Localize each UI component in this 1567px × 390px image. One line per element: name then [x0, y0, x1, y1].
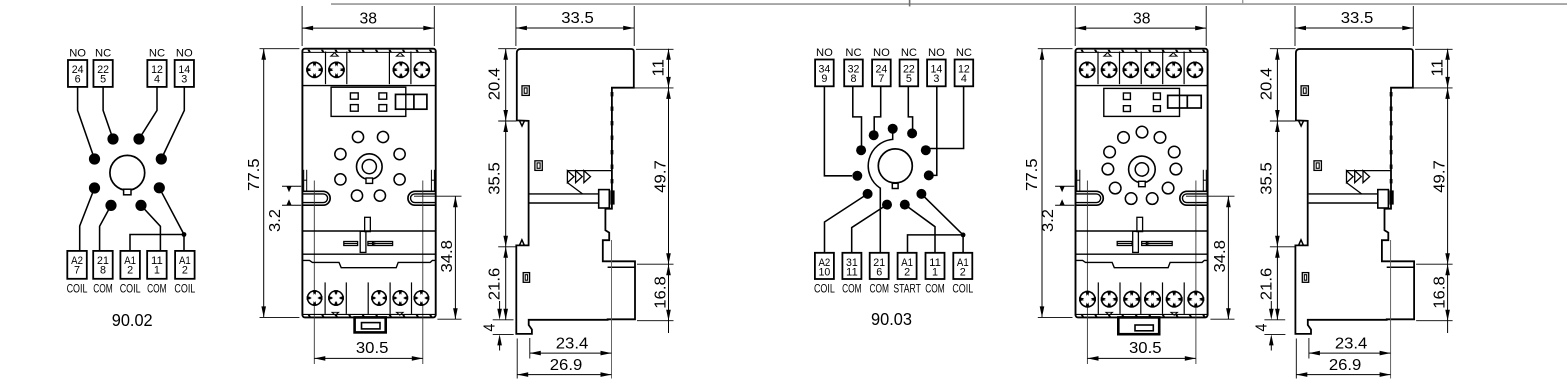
side 90.02 right dim arrows [666, 49, 671, 60]
front 90.03 clip slot [1137, 217, 1143, 231]
front 90.02 marker triangle [395, 52, 405, 57]
svg-text:5: 5 [906, 73, 912, 85]
svg-text:11: 11 [846, 266, 858, 278]
svg-text:3.2: 3.2 [1040, 209, 1057, 232]
side 90.02 clip hook [610, 190, 614, 204]
side 90.03 flag tail [1347, 183, 1362, 194]
svg-text:77.5: 77.5 [246, 158, 263, 191]
front 90.03 contact hole [1118, 132, 1130, 144]
terminal box 22/5 [93, 60, 112, 87]
pin 4 [856, 145, 866, 155]
side 90.02 flag 2 [576, 171, 583, 183]
svg-text:77.5: 77.5 [1024, 158, 1041, 191]
wire 14/3 to pin [161, 87, 184, 159]
side 90.02 flag tail [567, 183, 582, 194]
front 90.03 boss inner hole [1135, 163, 1148, 176]
side 90.02 rail comb [611, 92, 614, 96]
svg-text:COM: COM [93, 282, 113, 296]
svg-text:11: 11 [651, 59, 668, 77]
side 90.03 clamp window lower [1302, 273, 1308, 283]
terminal box 32/8 [844, 60, 863, 87]
pin B [133, 133, 144, 144]
svg-text:11: 11 [1430, 59, 1447, 77]
wire 24/6 to pin [78, 87, 95, 159]
front 90.02 boss inner hole [362, 160, 376, 174]
pin 7 [924, 170, 934, 180]
pin 10 [882, 200, 892, 210]
pin G [105, 200, 116, 211]
wire arc to 21/6 [879, 188, 881, 253]
svg-text:20.4: 20.4 [1259, 68, 1276, 101]
front 90.03 block square [1153, 93, 1160, 100]
socket keyway tab [892, 183, 898, 188]
front 90.02 clip bar left [344, 242, 358, 246]
pin H [135, 200, 146, 211]
front 90.02 screw [306, 62, 323, 79]
svg-text:33.5: 33.5 [561, 10, 594, 27]
terminal box 14/3 [175, 60, 194, 87]
side 90.02 bottom ext lines [516, 339, 518, 379]
svg-text:COM: COM [842, 282, 862, 296]
pin 8 [863, 189, 873, 199]
front 90.03 bottom strip hatch [1081, 315, 1085, 317]
terminal box 34/9 [815, 60, 834, 87]
side 90.03 right ext line [1415, 48, 1453, 50]
front 90.03 dim 30.5 [1088, 357, 1196, 359]
svg-text:16.8: 16.8 [1432, 276, 1449, 309]
front 90.03 clip shelf [1076, 230, 1208, 232]
front 90.02 partition [367, 282, 369, 314]
table rule (grey) [331, 3, 1567, 5]
front 90.03 partition [1140, 282, 1142, 314]
front 90.03 projection lines [1086, 181, 1088, 365]
front 90.02 block square [379, 93, 387, 99]
front 90.03 screw [1144, 291, 1161, 308]
terminal box A1/2 [120, 251, 139, 279]
svg-text:49.7: 49.7 [653, 160, 670, 193]
pin 9 [916, 189, 926, 199]
front 90.02 screw [414, 62, 431, 79]
svg-text:30.5: 30.5 [1129, 340, 1162, 357]
front 90.03 partition [1097, 52, 1099, 85]
front 90.03 contact hole [1170, 163, 1182, 175]
front 90.03 partition [1097, 282, 1099, 314]
svg-text:90.02: 90.02 [112, 310, 153, 330]
front 90.03 marker triangle [1105, 312, 1114, 316]
front 90.02 centre boss [357, 154, 383, 180]
svg-text:35.5: 35.5 [486, 162, 503, 195]
front 90.02 screw [371, 290, 387, 306]
svg-text:20.4: 20.4 [486, 68, 503, 101]
front 90.02 dim 3.2 [282, 185, 301, 187]
svg-text:2: 2 [182, 265, 188, 277]
svg-text:90.03: 90.03 [871, 309, 912, 329]
svg-text:21.6: 21.6 [1259, 268, 1276, 301]
svg-text:35.5: 35.5 [1259, 162, 1276, 195]
terminal box 21/8 [93, 251, 113, 279]
side 90.02 ledge inner line [608, 266, 635, 268]
front 90.03 block square [1153, 106, 1160, 112]
junction [961, 233, 966, 238]
svg-text:2: 2 [960, 266, 966, 278]
svg-text:COM: COM [925, 282, 945, 296]
front 90.03 screw [1144, 62, 1161, 79]
svg-text:4: 4 [961, 73, 967, 85]
front 90.03 lower shelf [1076, 253, 1208, 255]
svg-text:1: 1 [154, 265, 160, 277]
wire pin to 11/1 [141, 205, 160, 251]
svg-text:38: 38 [1133, 10, 1151, 27]
front 90.03 screw [1101, 62, 1118, 79]
front 90.02 screw [414, 290, 430, 306]
front 90.02 hook slot [303, 170, 305, 192]
side 90.02 left ext line [498, 48, 516, 50]
front 90.02 screw [328, 290, 344, 306]
svg-text:COIL: COIL [952, 282, 973, 296]
wire 22/5 to pin [908, 86, 912, 129]
front 90.02 contact hole [377, 131, 388, 142]
side 90.03 dim 23.4 [1309, 352, 1391, 354]
front 90.03 partition [1162, 52, 1164, 85]
front 90.03 mounting tab [1118, 317, 1159, 334]
terminal box A1/2 [898, 253, 917, 279]
wire pin to A2/10 [825, 194, 868, 253]
svg-text:NC: NC [845, 47, 861, 59]
front 90.03 body outline [1076, 49, 1208, 318]
svg-text:30.5: 30.5 [356, 340, 389, 357]
pin 5 [921, 145, 931, 155]
front 90.02 dim 38 [302, 27, 434, 29]
front 90.03 contact hole [1125, 193, 1137, 205]
svg-text:9: 9 [821, 73, 827, 85]
wire 32/8 to pin [853, 86, 862, 146]
side 90.03 body profile [1295, 49, 1414, 334]
side 90.02 clip bar [530, 193, 599, 195]
side 90.02 flag rail line [567, 170, 612, 172]
front 90.02 shelf line [302, 85, 435, 87]
side 90.03 ledge inner line [1387, 266, 1414, 268]
front 90.02 contact hole [335, 149, 346, 160]
terminal box 22/5 [900, 60, 919, 87]
wire 12/4 to pin [930, 86, 964, 148]
side 90.02 dim 23.4 [530, 352, 612, 354]
side 90.03 dim 33.5 [1295, 27, 1413, 29]
svg-text:6: 6 [75, 73, 81, 85]
pin 6 [852, 171, 862, 181]
front 90.02 marking block [331, 87, 406, 116]
side 90.03 right ext line [1393, 87, 1453, 89]
side 90.03 rail comb [1390, 92, 1393, 96]
side 90.03 left ext line [1264, 333, 1285, 335]
svg-text:6: 6 [876, 266, 882, 278]
front 90.02 partition [325, 52, 327, 85]
front 90.03 retaining hook [1076, 191, 1104, 205]
front 90.02 top strip hatch [307, 50, 311, 53]
side 90.03 clamp window middle [1314, 161, 1321, 171]
side 90.02 left ext line [493, 333, 514, 335]
front 90.02 screw [392, 290, 408, 306]
front 90.02 partition [389, 282, 391, 314]
front 90.02 partition [410, 52, 412, 85]
front 90.03 screw [1187, 62, 1204, 79]
terminal box 11/1 [147, 251, 167, 279]
side 90.02 lower notch tooth [519, 240, 524, 246]
svg-text:33.5: 33.5 [1341, 10, 1374, 27]
pin D [156, 153, 167, 164]
svg-text:NO: NO [816, 47, 833, 59]
front 90.02 clip bar right [368, 242, 393, 246]
front 90.02 marker triangle [330, 52, 340, 57]
front 90.03 contact hole [1136, 126, 1148, 138]
side 90.02 dim 33.5 ext [515, 6, 517, 46]
front 90.03 screw [1187, 291, 1204, 308]
side 90.03 right ext line [1416, 320, 1453, 322]
front 90.02 body outline [302, 49, 435, 318]
svg-text:8: 8 [850, 73, 856, 85]
svg-text:38: 38 [360, 10, 378, 27]
side 90.03 bottom ext lines [1295, 339, 1297, 379]
svg-text:7: 7 [74, 265, 80, 277]
terminal box 14/3 [927, 60, 946, 87]
front 90.03 screw [1123, 62, 1140, 79]
side 90.02 clamp window lower [523, 273, 529, 283]
wire pin to 11/1 [905, 205, 935, 253]
front 90.03 contact hole [1104, 146, 1116, 158]
junction [182, 232, 187, 237]
front 90.03 clip bar left [1117, 242, 1132, 246]
front 90.03 retaining hook [1180, 191, 1208, 205]
socket outline circle [110, 155, 145, 190]
side 90.02 left dim arrows [503, 49, 508, 60]
pin C [89, 153, 100, 164]
side 90.03 clamp window upper [1301, 86, 1308, 96]
front 90.03 marking block [1104, 88, 1180, 116]
front 90.03 dim 77.5 [1041, 49, 1043, 318]
side 90.03 upper notch tooth [1299, 121, 1304, 126]
wire 24/7 to pin [874, 86, 881, 131]
side 90.03 left dim line [1276, 49, 1278, 320]
front 90.02 marker triangle [395, 312, 404, 316]
front 90.02 contact hole [335, 174, 346, 185]
front 90.03 centre boss [1129, 156, 1156, 183]
side 90.02 clamp window upper [522, 86, 529, 96]
front 90.02 screw [307, 290, 323, 306]
front 90.02 profile step [302, 260, 435, 267]
front 90.03 dim 3.2 [1055, 185, 1074, 187]
wire pin to 21/8 [100, 205, 111, 251]
side 90.02 right ext line [637, 263, 674, 265]
front 90.03 contact hole [1102, 163, 1114, 175]
side 90.03 clip end [1378, 190, 1389, 208]
front 90.03 marker triangle [1168, 52, 1178, 57]
side 90.02 left ext line [498, 246, 516, 248]
front 90.02 partition [388, 52, 390, 85]
front 90.03 contact hole [1168, 146, 1180, 158]
front 90.03 top strip line [1077, 51, 1207, 53]
pin 2 [888, 124, 898, 134]
front 90.02 top strip line [303, 51, 434, 53]
side 90.02 left ext line [493, 319, 514, 321]
front 90.03 bridge rectangle [1168, 95, 1202, 108]
front 90.03 dim 38 ext lines [1074, 6, 1076, 46]
svg-text:34.8: 34.8 [439, 240, 456, 273]
side 90.02 upper notch tooth [520, 121, 525, 126]
pin A [107, 133, 118, 144]
side 90.02 flag 1 [567, 171, 574, 183]
front 90.03 marker triangle [1170, 312, 1179, 316]
rule tick [1242, 0, 1243, 4]
side 90.02 clip end [599, 190, 610, 208]
side 90.03 left ext line [1270, 48, 1296, 50]
side 90.02 body profile [516, 49, 635, 334]
svg-text:4: 4 [481, 323, 498, 331]
front 90.02 contact hole [351, 190, 362, 201]
terminal box A2/7 [67, 251, 87, 279]
terminal box 31/11 [842, 253, 861, 279]
svg-text:COIL: COIL [174, 282, 195, 296]
side 90.03 clip hook [1390, 190, 1394, 204]
wire pin to A2/7 [80, 188, 95, 251]
front 90.02 bottom strip hatch [307, 315, 311, 317]
side 90.03 flag rail line [1347, 170, 1392, 172]
front 90.03 partition [1183, 52, 1185, 85]
front 90.03 screw [1101, 291, 1118, 308]
side 90.02 dim 33.5 [516, 27, 634, 29]
side 90.02 clamp window middle [535, 161, 542, 171]
svg-text:1: 1 [932, 266, 938, 278]
front 90.03 clip bar right [1142, 242, 1173, 246]
svg-text:26.9: 26.9 [550, 357, 583, 374]
front 90.03 contact hole [1146, 193, 1158, 205]
terminal box 21/6 [870, 253, 889, 279]
side 90.03 flag 1 [1347, 171, 1354, 183]
front 90.02 dim 38 ext lines [301, 6, 303, 46]
svg-text:23.4: 23.4 [1335, 336, 1368, 353]
svg-text:23.4: 23.4 [556, 336, 589, 353]
svg-text:NC: NC [956, 47, 972, 59]
front 90.03 hook slot [1076, 170, 1078, 192]
front 90.02 contact hole [394, 149, 405, 160]
svg-text:2: 2 [904, 266, 910, 278]
side 90.03 left ext line [1270, 246, 1295, 248]
front 90.03 bottom strip line [1076, 313, 1208, 315]
svg-text:4: 4 [1254, 323, 1271, 331]
side 90.03 dim 33.5 ext [1294, 6, 1296, 46]
front 90.02 screw [328, 62, 345, 79]
svg-text:16.8: 16.8 [653, 276, 670, 309]
wire 12/4 to pin [139, 87, 157, 139]
svg-text:COIL: COIL [814, 282, 835, 296]
front 90.02 boss keyway [366, 178, 373, 183]
front 90.03 contact hole [1154, 132, 1166, 144]
svg-text:3: 3 [933, 73, 939, 85]
pin 1 [869, 130, 879, 140]
wire coil bus [130, 235, 184, 251]
svg-text:NC: NC [149, 47, 165, 59]
front 90.02 clip slot [365, 217, 371, 231]
wire pin to 31/11 [852, 205, 887, 253]
front 90.02 dim 30.5 [314, 357, 423, 359]
front 90.03 block square [1123, 106, 1130, 112]
pin 3 [907, 128, 917, 138]
front 90.02 partition [345, 282, 347, 314]
side 90.02 right dim line [668, 49, 670, 321]
svg-text:NO: NO [176, 47, 193, 59]
svg-text:NO: NO [873, 47, 890, 59]
front 90.02 block square [350, 93, 358, 99]
svg-text:NC: NC [95, 47, 111, 59]
terminal box 11/1 [926, 253, 945, 279]
front 90.03 partition [1183, 282, 1185, 314]
front 90.02 projection lines [313, 181, 315, 365]
side 90.03 clip bar [1309, 193, 1378, 195]
front 90.02 dim 34.8 [454, 196, 456, 319]
side 90.03 left dim arrows [1275, 49, 1280, 60]
terminal box 24/7 [872, 60, 891, 87]
side 90.03 lower notch tooth [1299, 240, 1304, 246]
svg-text:START: START [893, 282, 921, 296]
front 90.03 top strip hatch [1081, 50, 1085, 53]
side 90.02 right ext line [614, 87, 674, 89]
side 90.03 right dim line [1447, 49, 1449, 321]
front 90.02 screw [393, 62, 410, 79]
front 90.03 tab window [1135, 325, 1153, 331]
side 90.02 right ext line [636, 48, 674, 50]
front 90.02 mounting tab [355, 317, 386, 332]
front 90.02 partition [324, 282, 326, 314]
front 90.02 clip shelf [302, 230, 435, 232]
pin 11 [900, 200, 910, 210]
socket spiral arc [868, 133, 892, 188]
terminal box A1/2 [175, 251, 195, 279]
front 90.03 screw [1166, 291, 1183, 308]
svg-text:COM: COM [869, 282, 889, 296]
front 90.02 retaining hook [302, 191, 330, 205]
wire coil bus [908, 235, 964, 253]
svg-text:8: 8 [100, 265, 106, 277]
front 90.03 contact hole [1162, 182, 1174, 194]
front 90.03 partition [1119, 52, 1121, 85]
socket keyway tab [124, 189, 131, 195]
side 90.02 left ext line [498, 120, 516, 122]
side 90.02 dim 26.9 [517, 374, 611, 376]
side 90.03 left ext line [1270, 120, 1296, 122]
side 90.02 flag 3 [584, 171, 591, 183]
side 90.03 flag 3 [1363, 171, 1370, 183]
svg-text:3.2: 3.2 [267, 209, 284, 232]
side 90.02 left dim line [505, 49, 507, 320]
front 90.03 marker triangle [1103, 52, 1113, 57]
front 90.03 contact hole [1109, 182, 1121, 194]
svg-text:7: 7 [878, 73, 884, 85]
front 90.02 hook slot [433, 170, 435, 192]
svg-text:5: 5 [100, 73, 106, 85]
svg-text:2: 2 [127, 265, 133, 277]
terminal box 12/4 [955, 60, 974, 87]
front 90.02 tab window [362, 323, 381, 329]
terminal box 24/6 [68, 60, 87, 87]
terminal box A1/2 [953, 253, 972, 279]
terminal box A2/10 [815, 253, 834, 279]
front 90.03 screw [1079, 62, 1096, 79]
svg-text:NO: NO [69, 47, 86, 59]
pin E [89, 182, 100, 193]
front 90.02 block square [379, 105, 387, 112]
side 90.03 flag 2 [1355, 171, 1362, 183]
front 90.02 dim 77.5 [263, 49, 265, 318]
front 90.02 contact hole [374, 190, 385, 201]
front 90.02 partition [346, 52, 348, 85]
